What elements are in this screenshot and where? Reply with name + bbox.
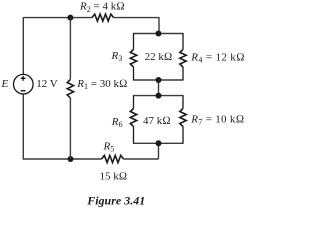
wire bottom rail left segment (23, 158, 101, 160)
resistor R2 zigzag (92, 14, 114, 21)
wire box1 left lower lead (133, 67, 135, 81)
svg-text:R7 = 10 kΩ: R7 = 10 kΩ (190, 113, 244, 126)
wire right vertical from top wire to box1 (158, 17, 160, 34)
svg-text:R6: R6 (111, 116, 123, 129)
node junction dot box2 top (156, 93, 162, 99)
voltage source plus sign (21, 76, 26, 81)
resistor R4 zigzag (180, 50, 186, 68)
node junction dot box1 top (156, 31, 162, 37)
wire box1 bottom (134, 79, 184, 81)
resistor R6 zigzag (130, 109, 136, 127)
svg-text:12 V: 12 V (36, 78, 58, 90)
resistor R3 zigzag (130, 50, 136, 68)
voltage source E circle (13, 74, 33, 94)
voltage source minus sign (21, 90, 26, 92)
resistor R7 zigzag (180, 109, 186, 127)
wire box2 left upper lead (133, 95, 135, 108)
node junction dot bottom (R1 bottom) (68, 156, 74, 162)
node junction dot box1 bottom (156, 77, 162, 83)
wire box1 top (134, 33, 184, 35)
wire left vertical upper (22, 17, 24, 74)
resistor R5 zigzag (102, 155, 124, 162)
wire R1 branch upper (69, 18, 71, 80)
wire R1 branch lower (69, 98, 71, 159)
wire box2 bottom (134, 142, 184, 144)
svg-text:22 kΩ: 22 kΩ (145, 51, 173, 63)
svg-text:47 kΩ: 47 kΩ (143, 115, 171, 127)
node junction dot box2 bottom (156, 140, 162, 146)
svg-text:R4 = 12 kΩ: R4 = 12 kΩ (190, 51, 245, 64)
wire top horizontal right segment (114, 17, 159, 19)
svg-text:R3: R3 (111, 50, 123, 63)
svg-text:R5: R5 (103, 141, 115, 154)
wire box2 left lower lead (133, 127, 135, 144)
wire bottom rail right segment (124, 158, 159, 160)
wire box1 right upper lead (182, 33, 184, 50)
wire left vertical lower (22, 94, 24, 160)
svg-text:E: E (1, 78, 9, 90)
svg-text:R1 = 30 kΩ: R1 = 30 kΩ (76, 78, 127, 91)
wire top horizontal left segment (23, 17, 92, 19)
wire box2 right upper lead (182, 95, 184, 108)
wire box2 right lower lead (182, 127, 184, 144)
svg-text:15 kΩ: 15 kΩ (100, 171, 128, 183)
node junction dot top (R1 top) (67, 15, 73, 21)
svg-text:Figure 3.41: Figure 3.41 (86, 193, 145, 207)
wire box2 top (134, 95, 184, 97)
resistor R1 zigzag (67, 79, 73, 98)
svg-text:R2 = 4 kΩ: R2 = 4 kΩ (79, 1, 125, 14)
wire box1 right lower lead (182, 67, 184, 81)
wire between boxes (158, 80, 160, 96)
wire box2 bottom to bottom rail (158, 143, 160, 159)
wire box1 left upper lead (133, 33, 135, 50)
